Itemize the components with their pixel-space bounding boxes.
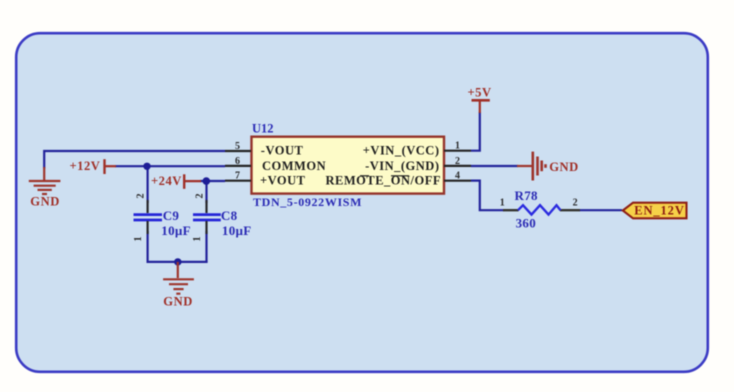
power port +24V	[151, 174, 201, 189]
svg-text:C9: C9	[163, 208, 180, 223]
U12 pin 7 stub	[225, 171, 251, 182]
svg-text:1: 1	[192, 237, 203, 242]
wire +24V net to pin7	[200, 180, 225, 182]
capacitor C8	[192, 194, 252, 242]
junction dot at +24V / C8	[203, 177, 211, 185]
svg-text:2: 2	[455, 156, 460, 167]
ground bottom: GND label	[163, 294, 193, 308]
power port +5V	[468, 86, 492, 114]
svg-text:GND: GND	[163, 294, 193, 308]
component U12 body	[252, 137, 445, 194]
svg-text:4: 4	[455, 171, 460, 182]
ground left: GND label	[30, 195, 60, 209]
U12 pin name +VOUT	[260, 174, 306, 188]
wire +12V net to pin6	[115, 165, 225, 167]
U12 pin name REMOTE_ON/OFF with overbar	[325, 174, 441, 188]
U12 pin 1 stub	[444, 141, 471, 152]
U12 pin name -VOUT	[261, 144, 304, 158]
U12 pin name +VIN_(VCC)	[363, 144, 440, 158]
svg-text:2: 2	[195, 194, 206, 199]
resistor R78	[500, 188, 580, 230]
U12 pin name COMMON	[262, 159, 326, 173]
wire bottom bus between C9 and C8	[147, 261, 208, 263]
svg-text:2: 2	[573, 198, 578, 209]
svg-text:10µF: 10µF	[222, 223, 252, 238]
svg-text:COMMON: COMMON	[262, 159, 326, 173]
U12 pin 4 stub	[444, 171, 471, 182]
svg-text:GND: GND	[30, 195, 60, 209]
power port +12V	[70, 159, 117, 174]
svg-text:R78: R78	[515, 188, 538, 203]
ground right: GND label	[549, 160, 579, 174]
svg-text:360: 360	[516, 215, 536, 230]
svg-text:10µF: 10µF	[161, 223, 191, 238]
svg-text:-VIN_(GND): -VIN_(GND)	[365, 159, 439, 173]
wire +5V to pin1	[471, 112, 480, 151]
junction dot at +12V / C9	[143, 163, 150, 170]
U12 pin 5 stub	[225, 141, 251, 152]
ground left: symbol	[29, 167, 61, 194]
svg-text:+24V: +24V	[151, 174, 182, 188]
svg-text:+VOUT: +VOUT	[260, 174, 306, 188]
U12 pin 2 stub	[444, 156, 471, 167]
port flag EN_12V	[623, 203, 687, 219]
svg-text:+VIN_(VCC): +VIN_(VCC)	[363, 144, 440, 158]
U12 refdes label	[252, 122, 274, 136]
svg-text:6: 6	[235, 156, 240, 167]
svg-text:TDN_5-0922WISM: TDN_5-0922WISM	[253, 195, 362, 209]
svg-text:REMOTE_ON/OFF: REMOTE_ON/OFF	[325, 174, 441, 188]
svg-text:+5V: +5V	[468, 86, 492, 100]
svg-text:1: 1	[455, 141, 460, 152]
svg-text:1: 1	[500, 198, 505, 209]
ground bottom: symbol	[163, 262, 194, 294]
wire pin4 to resistor R78	[471, 181, 504, 211]
wire R78 to EN_12V flag	[580, 209, 623, 211]
U12 pin name -VIN_(GND)	[365, 159, 439, 173]
svg-text:+12V: +12V	[70, 159, 101, 173]
wire C8 branch vertical	[205, 181, 207, 262]
ground right (bar style)	[517, 152, 546, 181]
svg-text:7: 7	[235, 171, 240, 182]
wire pin2 to right GND	[471, 165, 518, 167]
svg-text:1: 1	[133, 237, 144, 242]
junction dot bottom bus	[174, 258, 181, 265]
svg-text:GND: GND	[549, 160, 579, 174]
svg-text:C8: C8	[221, 208, 238, 223]
wire C9 branch vertical	[147, 166, 149, 262]
svg-text:2: 2	[136, 194, 147, 199]
U12 part number TDN_5-0922WISM	[253, 195, 362, 209]
svg-text:EN_12V: EN_12V	[634, 204, 685, 218]
svg-text:5: 5	[235, 141, 240, 152]
capacitor C9	[133, 194, 191, 242]
svg-text:U12: U12	[252, 122, 274, 136]
wire pin5 net: U12 pin5 to left GND	[44, 151, 225, 169]
U12 pin 6 stub	[225, 156, 251, 167]
svg-text:-VOUT: -VOUT	[261, 144, 304, 158]
